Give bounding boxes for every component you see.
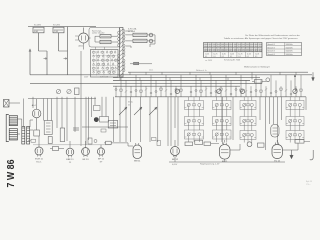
tube V7 EL11	[219, 143, 230, 164]
psu part 20	[102, 63, 105, 67]
wire	[232, 97, 234, 140]
wire speaker links	[17, 99, 33, 135]
capacitor C5	[75, 88, 80, 95]
tone capacitor	[108, 121, 118, 129]
psu part 27	[111, 67, 114, 71]
wire	[170, 97, 172, 146]
node mains junction	[67, 27, 69, 75]
svg-text:8848: 8848	[259, 44, 263, 46]
psu part 21	[107, 63, 109, 66]
tube V6 EF12	[171, 145, 180, 161]
wire right edge drop	[312, 72, 315, 81]
svg-text:1600 kHz: 1600 kHz	[286, 47, 293, 49]
tube V1 ECH11	[35, 145, 44, 163]
wire heater leads	[126, 31, 156, 48]
resistor chain R12	[44, 121, 52, 135]
svg-text:Si 125V: Si 125V	[53, 25, 61, 27]
resistor R16	[88, 138, 92, 144]
tube V2 EBF11	[66, 146, 74, 164]
psu part 22	[112, 63, 114, 66]
svg-text:6,3V 0,6A: 6,3V 0,6A	[100, 76, 109, 79]
IF transformer Fi2 section 2	[213, 117, 232, 131]
wire selector to psu	[96, 47, 105, 50]
resistor R25	[295, 140, 310, 144]
svg-text:4V 1,1A: 4V 1,1A	[128, 30, 135, 33]
svg-text:8848: 8848	[217, 51, 221, 53]
wire rectifier anode	[83, 28, 85, 32]
wire	[56, 97, 58, 128]
svg-text:1600 kHz: 1600 kHz	[286, 54, 293, 56]
wire	[174, 97, 176, 128]
svg-text:8848: 8848	[204, 49, 208, 51]
capacitor C16	[152, 138, 157, 141]
svg-text:0,1: 0,1	[247, 56, 249, 58]
svg-text:8848: 8848	[217, 46, 221, 48]
lamp L1	[149, 33, 153, 37]
wire	[105, 97, 107, 117]
wire EM11 grid	[114, 143, 133, 146]
svg-text:8848: 8848	[208, 51, 212, 53]
wire rectifier to transformer	[89, 37, 91, 39]
svg-text:8848: 8848	[208, 49, 212, 51]
svg-text:Regelspannung -1,5V: Regelspannung -1,5V	[200, 163, 220, 165]
resistor R17	[157, 141, 161, 146]
IF transformer Fi2 feed wires	[217, 97, 227, 142]
wire cathode line	[169, 161, 285, 163]
wire	[94, 97, 96, 105]
resistor R22	[204, 142, 219, 145]
svg-text:8848: 8848	[242, 46, 246, 48]
svg-text:1600 kHz: 1600 kHz	[286, 44, 293, 46]
wire bus AVC rail	[113, 79, 250, 81]
switch S1	[134, 62, 139, 65]
svg-text:Tabelle zu entnehmen. Alle Spa: Tabelle zu entnehmen. Alle Spannungen si…	[224, 37, 299, 40]
svg-text:8848: 8848	[246, 46, 250, 48]
svg-text:Bereich K: Bereich K	[268, 50, 276, 53]
svg-text:ca. 245V: ca. 245V	[205, 60, 213, 62]
svg-text:8848: 8848	[229, 44, 233, 46]
svg-text:0,1: 0,1	[230, 56, 232, 58]
svg-text:1a 25: 1a 25	[213, 54, 217, 56]
antenna terminal	[29, 49, 31, 75]
svg-text:8848: 8848	[259, 51, 263, 53]
IF transformer Fi4 section 1	[286, 101, 304, 117]
wire lamp return	[150, 35, 155, 47]
svg-text:EF 12: EF 12	[172, 159, 179, 161]
fuse Si2	[53, 27, 64, 33]
ground symbol G1	[290, 150, 293, 159]
parts table	[204, 43, 263, 58]
capacitor C1 mains filter	[44, 58, 48, 60]
svg-text:0,1: 0,1	[205, 56, 207, 58]
IF transformer Fi1 section 1	[185, 101, 204, 117]
svg-text:8848: 8848	[204, 44, 208, 46]
capacitor C8	[73, 128, 79, 130]
wire cathode drop V7	[224, 159, 226, 162]
svg-text:8848: 8848	[208, 44, 212, 46]
svg-text:8848: 8848	[238, 46, 242, 48]
wire bus screen rail	[113, 77, 260, 79]
wire	[259, 97, 261, 120]
svg-text:8848: 8848	[246, 49, 250, 51]
output transformer	[22, 127, 30, 145]
variable capacitor arrows	[119, 107, 157, 115]
svg-text:2x0,1: 2x0,1	[149, 70, 153, 72]
psu part 14	[102, 59, 105, 63]
wire	[149, 97, 151, 142]
wire	[305, 97, 307, 110]
IF transformer Fi4 section 3	[286, 131, 304, 143]
grid stopper R20	[104, 141, 114, 144]
resistor R14	[60, 128, 64, 142]
potentiometer P1	[56, 89, 60, 93]
wire	[157, 97, 159, 142]
resistor R1 dropper	[100, 35, 111, 38]
svg-text:0,1: 0,1	[213, 56, 215, 58]
wire bus anode rail	[30, 74, 312, 76]
IF transformer Fi3 section 1	[240, 101, 256, 117]
oscillator coil can	[271, 125, 279, 138]
svg-text:8848: 8848	[238, 51, 242, 53]
capacitor C15	[94, 140, 97, 143]
svg-text:8848: 8848	[242, 44, 246, 46]
wire	[61, 97, 63, 128]
psu part 8	[97, 55, 100, 59]
svg-text:Bereich K: Bereich K	[268, 53, 276, 56]
svg-text:1a 25: 1a 25	[205, 54, 209, 56]
IF transformer Fi1 section 2	[185, 117, 204, 131]
psu part 3	[101, 51, 104, 55]
wire AL4 anode	[36, 99, 38, 109]
wire	[66, 97, 68, 141]
svg-text:8848: 8848	[217, 49, 221, 51]
IF transformer Fi4 feed wires	[290, 97, 300, 143]
psu part 25	[102, 67, 104, 70]
IF transformer Fi4 section 2	[286, 117, 304, 131]
wire detector branch	[252, 75, 296, 89]
resistor R2 dropper	[100, 40, 111, 43]
resistor R13	[48, 137, 52, 144]
svg-text:1a 25: 1a 25	[247, 54, 251, 56]
svg-text:8848: 8848	[259, 49, 263, 51]
wire	[221, 97, 223, 144]
legend table	[267, 43, 302, 56]
capacitor C7	[266, 78, 270, 82]
capacitor C26	[258, 143, 265, 147]
svg-text:8848: 8848	[254, 51, 258, 53]
svg-text:1a 25: 1a 25	[230, 54, 234, 56]
wire	[269, 97, 271, 124]
trimmer T1	[175, 89, 179, 93]
svg-text:Wellenschalter in Stellung K: Wellenschalter in Stellung K	[244, 65, 270, 68]
svg-text:0,1: 0,1	[238, 56, 240, 58]
capacitor C14	[101, 129, 106, 132]
voltage selector box	[89, 28, 120, 48]
transformer primary winding	[118, 31, 120, 70]
svg-text:Wellensch. 1a: Wellensch. 1a	[196, 70, 207, 72]
wire	[273, 97, 275, 124]
psu part 1	[93, 51, 96, 55]
psu part 17	[115, 59, 118, 63]
psu part 32	[108, 71, 111, 75]
svg-text:8848: 8848	[213, 49, 217, 51]
wire bus chassis rail	[113, 85, 240, 87]
wire speaker feed	[28, 98, 96, 100]
wire AL4 cathode	[36, 118, 38, 130]
psu wiring mesh	[92, 51, 117, 76]
svg-text:Die Werte der Widerstande und: Die Werte der Widerstande und Kondensato…	[245, 34, 300, 37]
psu part 31	[103, 71, 105, 74]
wire	[277, 97, 279, 144]
svg-text:Misch.: Misch.	[36, 161, 42, 163]
label osc coil	[128, 102, 133, 107]
psu part 7	[93, 55, 95, 58]
svg-text:1a 25: 1a 25	[222, 54, 226, 56]
wire AL4 to transformer	[30, 120, 33, 127]
psu part 30	[98, 71, 101, 75]
svg-text:8848: 8848	[213, 46, 217, 48]
wire	[91, 97, 93, 117]
loudspeaker	[6, 115, 17, 142]
wire	[80, 51, 82, 146]
svg-text:8848: 8848	[242, 49, 246, 51]
svg-text:8848: 8848	[233, 46, 237, 48]
capacitor C2 mains filter	[64, 58, 68, 60]
svg-text:8848: 8848	[242, 51, 246, 53]
svg-text:EF 13: EF 13	[83, 159, 90, 161]
psu part 33	[113, 71, 116, 75]
wire from Si1 down	[39, 33, 48, 75]
wire tube top leads	[39, 136, 277, 146]
print reference mark	[306, 181, 312, 186]
svg-text:8848: 8848	[250, 51, 254, 53]
wire	[47, 99, 49, 121]
ground symbol G2	[310, 150, 313, 160]
svg-text:8848: 8848	[225, 49, 229, 51]
lamp L2	[149, 39, 153, 43]
wire	[113, 97, 115, 142]
output tube AL4	[32, 104, 41, 118]
svg-text:Bereich K: Bereich K	[268, 46, 276, 49]
svg-text:b5: b5	[128, 105, 130, 107]
svg-text:8848: 8848	[221, 44, 225, 46]
wire tube row link	[33, 144, 111, 146]
resistor R10 cathode	[34, 130, 40, 136]
resistor R4	[133, 39, 147, 42]
capacitor C19 grid	[28, 139, 36, 142]
svg-text:8848: 8848	[229, 49, 233, 51]
svg-text:8848: 8848	[213, 51, 217, 53]
psu part 13	[97, 59, 99, 62]
wire mains top rail	[28, 26, 96, 28]
psu part 10	[107, 55, 110, 59]
svg-text:0,1: 0,1	[222, 56, 224, 58]
wire bus link ticks	[120, 72, 296, 80]
svg-text:8848: 8848	[238, 49, 242, 51]
psu part 29	[93, 71, 95, 74]
wire	[74, 97, 76, 132]
psu part 23	[93, 67, 96, 71]
trimmer T2	[217, 89, 221, 93]
svg-text:1600 kHz: 1600 kHz	[286, 51, 293, 53]
svg-text:8848: 8848	[246, 51, 250, 53]
svg-text:8848: 8848	[213, 44, 217, 46]
svg-text:174 c: 174 c	[306, 184, 311, 186]
svg-text:EM 11: EM 11	[134, 161, 141, 163]
svg-text:EF 11: EF 11	[98, 159, 104, 161]
volume potentiometer	[94, 117, 108, 123]
svg-text:XII 4a: XII 4a	[128, 102, 133, 104]
transformer secondary winding	[123, 29, 125, 71]
wire	[101, 97, 103, 117]
svg-text:8848: 8848	[221, 49, 225, 51]
svg-text:0,65V: 0,65V	[172, 164, 178, 166]
capacitor C25	[247, 142, 252, 147]
wire cathode drop V6	[174, 156, 176, 163]
psu part 15	[106, 59, 109, 63]
wire switch feed	[130, 63, 152, 65]
wire bus heater rail	[30, 82, 262, 84]
tube V5 EM11	[133, 143, 142, 163]
psu part 4	[106, 51, 108, 54]
wire rectifier left stubs	[75, 36, 79, 40]
svg-text:8848: 8848	[221, 46, 225, 48]
psu part 2	[97, 51, 99, 54]
wire	[32, 97, 34, 108]
svg-text:Schaltung Nr. 7246: Schaltung Nr. 7246	[224, 59, 240, 62]
wire	[43, 99, 45, 121]
svg-text:8848: 8848	[250, 44, 254, 46]
psu part 9	[102, 55, 104, 58]
psu part 24	[97, 67, 99, 70]
trimmer T3	[240, 89, 244, 93]
svg-text:8848: 8848	[225, 46, 229, 48]
IF transformer Fi2 section 1	[213, 101, 232, 117]
svg-text:8848: 8848	[250, 49, 254, 51]
svg-text:8848: 8848	[217, 44, 221, 46]
svg-text:0,1: 0,1	[255, 56, 257, 58]
IF transformer Fi3 section 3	[240, 131, 256, 143]
coupling capacitor C22	[185, 142, 193, 146]
resistor R3	[133, 33, 147, 36]
resistor R8	[252, 80, 266, 84]
svg-text:7 W 86: 7 W 86	[5, 159, 17, 187]
svg-text:1a 25: 1a 25	[238, 54, 242, 56]
svg-text:Bereich K: Bereich K	[268, 43, 276, 46]
IF transformer Fi3 section 2	[240, 117, 256, 131]
rectifier tube AZ11	[79, 31, 89, 48]
wire	[88, 97, 90, 140]
svg-text:8848: 8848	[221, 51, 225, 53]
svg-text:1a 25: 1a 25	[255, 54, 259, 56]
svg-text:AZ11: AZ11	[79, 45, 83, 48]
IF transformer Fi1 feed wires	[189, 97, 200, 142]
svg-text:8848: 8848	[204, 46, 208, 48]
wire output stage	[230, 143, 298, 150]
wire mid rail	[115, 96, 306, 98]
wire	[177, 97, 179, 146]
trimmer T4	[293, 89, 297, 93]
psu part 6	[114, 51, 116, 54]
IF transformer Fi3 feed wires	[244, 97, 252, 143]
psu part 19	[97, 63, 100, 67]
wire rectifier cathode down	[83, 43, 85, 50]
svg-text:8848: 8848	[208, 46, 212, 48]
wire	[119, 97, 121, 142]
svg-text:8848: 8848	[229, 46, 233, 48]
wire bus +HT	[128, 71, 308, 73]
svg-text:Si 220V: Si 220V	[34, 25, 42, 27]
tube V8 EL12	[272, 143, 282, 163]
wire	[85, 97, 87, 145]
svg-text:8848: 8848	[254, 46, 258, 48]
svg-text:8848: 8848	[246, 44, 250, 46]
svg-text:8848: 8848	[225, 44, 229, 46]
wire	[281, 97, 283, 120]
wire	[130, 97, 132, 142]
wire volume bus	[82, 126, 128, 128]
psu part 5	[110, 51, 113, 55]
tube V4 EF11	[97, 146, 104, 164]
svg-text:8848: 8848	[233, 44, 237, 46]
wire	[140, 97, 142, 142]
wire rf section verticals	[115, 75, 302, 97]
wire	[167, 97, 169, 146]
svg-text:8848: 8848	[254, 49, 258, 51]
wire	[125, 97, 127, 142]
svg-text:8848: 8848	[233, 49, 237, 51]
wire	[51, 99, 53, 121]
wire pickup lead	[9, 102, 20, 104]
svg-text:EBF 11: EBF 11	[66, 159, 74, 161]
psu part 12	[93, 59, 96, 63]
svg-text:8848: 8848	[238, 44, 242, 46]
power supply block	[91, 50, 119, 78]
mains transformer core	[120, 28, 123, 78]
svg-text:8848: 8848	[254, 44, 258, 46]
svg-text:8848: 8848	[204, 51, 208, 53]
svg-text:ECH 11: ECH 11	[35, 158, 43, 160]
fuse Si1	[33, 27, 44, 33]
capacitor C20	[50, 147, 64, 151]
svg-text:8848: 8848	[259, 46, 263, 48]
resistor R15	[94, 106, 101, 111]
svg-text:8848: 8848	[233, 51, 237, 53]
psu part 11	[112, 55, 115, 59]
tube V3 EF13	[82, 146, 90, 161]
IF transformer Fi1 section 3	[185, 130, 204, 142]
svg-text:Bpk 39: Bpk 39	[306, 181, 312, 183]
wire selector taps	[95, 36, 117, 42]
psu part 28	[115, 67, 117, 70]
psu part 18	[93, 63, 95, 66]
potentiometer P2	[67, 89, 71, 93]
svg-text:8848: 8848	[225, 51, 229, 53]
wire from Si2 down	[59, 33, 68, 51]
psu part 16	[111, 59, 113, 62]
svg-text:8848: 8848	[229, 51, 233, 53]
pickup socket	[4, 100, 10, 108]
coupling capacitor C23	[195, 140, 203, 144]
svg-text:8848: 8848	[250, 46, 254, 48]
psu part 26	[106, 67, 109, 71]
IF transformer Fi2 section 3	[213, 130, 232, 142]
wire	[265, 97, 267, 150]
